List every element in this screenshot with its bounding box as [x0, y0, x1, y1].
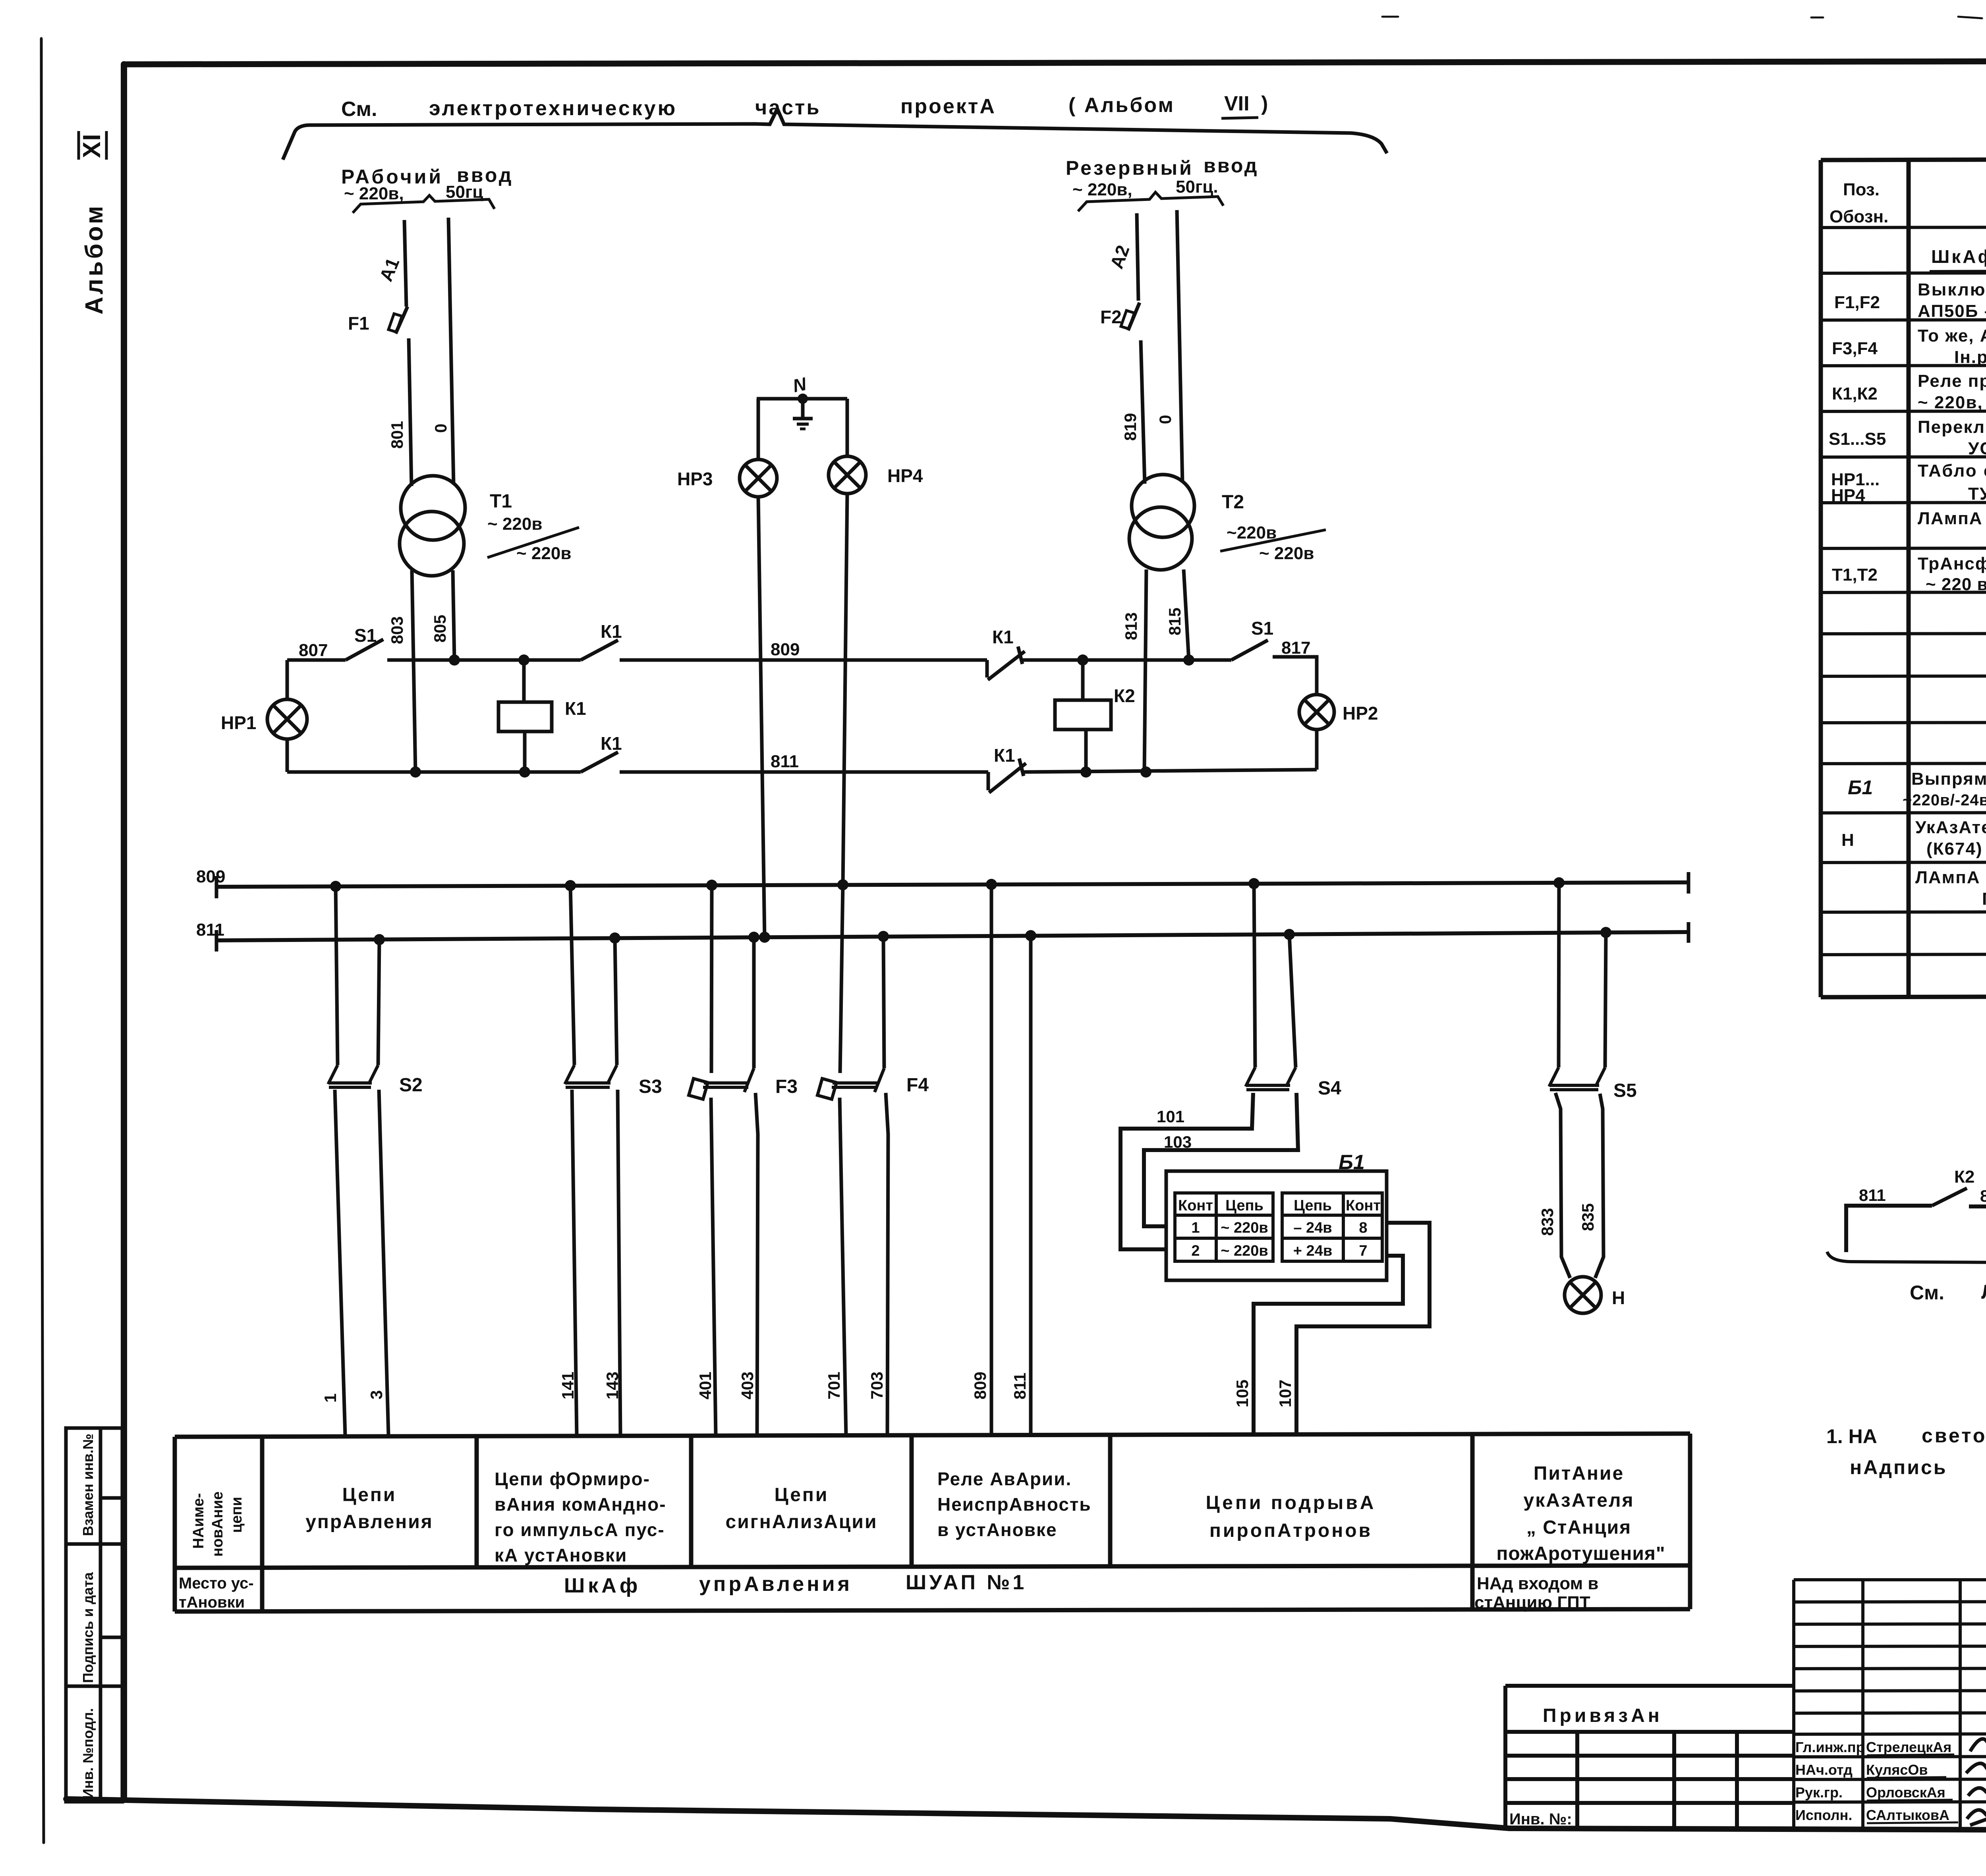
svg-text:ПривязАн: ПривязАн — [1543, 1705, 1663, 1726]
svg-text:~ 220в: ~ 220в — [487, 514, 542, 534]
svg-text:813: 813 — [1122, 612, 1140, 640]
svg-text:50гц.: 50гц. — [1176, 177, 1218, 197]
svg-text:СтрелецкАя: СтрелецкАя — [1866, 1739, 1951, 1755]
spec row F1F2 — [1834, 280, 1986, 322]
svg-text:+ 24в: + 24в — [1293, 1243, 1332, 1259]
wire 0 reserve — [1177, 210, 1182, 483]
wire 801 upper — [404, 220, 406, 307]
contact K1 NO in wire 809 — [581, 640, 618, 660]
svg-text:УСО. 360 ∙ 049ТУ: УСО. 360 ∙ 049ТУ — [1968, 439, 1986, 458]
wire 809 segment a — [387, 658, 581, 662]
svg-text:К1: К1 — [992, 627, 1014, 647]
svg-text:Лист: Лист — [1981, 1281, 1986, 1303]
svg-text:Н: Н — [1841, 830, 1854, 850]
left margin stamp boxes — [66, 1428, 122, 1802]
svg-text:811: 811 — [1010, 1372, 1029, 1399]
svg-text:815: 815 — [1165, 608, 1184, 635]
wire HP3 top — [757, 399, 760, 459]
svg-text:1: 1 — [321, 1393, 340, 1403]
svg-text:КулясОв: КулясОв — [1866, 1762, 1928, 1778]
wire 0 working — [448, 218, 454, 484]
relay coil K1 — [498, 702, 552, 731]
svg-text:Инв. №:: Инв. №: — [1509, 1810, 1572, 1828]
svg-text:801: 801 — [388, 421, 406, 449]
svg-text:УкАзАтель светАвой СУП: УкАзАтель светАвой СУП-М — [1915, 818, 1986, 837]
big brace under top note — [283, 109, 1387, 160]
small brace reserve input — [1078, 192, 1223, 211]
svg-text:электротехническую: электротехническую — [429, 97, 677, 120]
wire 703 down — [886, 1093, 888, 1435]
label reserve input — [1066, 154, 1258, 179]
svg-text:103: 103 — [1164, 1133, 1192, 1151]
svg-text:0: 0 — [1156, 415, 1175, 424]
svg-text:НАч.отд: НАч.отд — [1795, 1762, 1853, 1778]
rectifier block B1 outer — [1166, 1171, 1387, 1280]
spec row B1 — [1848, 768, 1986, 811]
column texts — [305, 1484, 433, 1532]
wire S3 right from bus 811 — [615, 938, 617, 1065]
wire 837 — [1969, 1204, 1986, 1208]
wire pin 8 to 107 — [1296, 1223, 1430, 1435]
brace AP-6 — [1827, 1250, 1986, 1275]
wire 143 down — [618, 1090, 620, 1435]
svg-text:Реле промежуточное РПУ: Реле промежуточное РПУ-1 -362, — [1918, 371, 1986, 391]
svg-text:пиропАтронов: пиропАтронов — [1209, 1520, 1372, 1541]
svg-text:S1: S1 — [1251, 618, 1273, 639]
svg-text:Взамен инв.№: Взамен инв.№ — [80, 1434, 96, 1536]
svg-text:кА устАновки: кА устАновки — [495, 1545, 627, 1565]
lamp HP1 — [267, 699, 307, 739]
sheet left edge line — [41, 39, 44, 1843]
svg-text:~ 220 в / ~ 220в ГОСТ 1.: ~ 220 в / ~ 220в ГОСТ 1. 6710 -76 — [1926, 575, 1986, 594]
svg-text:укАзАтеля: укАзАтеля — [1524, 1490, 1634, 1511]
wire K2 coil top — [1081, 660, 1085, 700]
wire pin 7 to 105 — [1254, 1256, 1403, 1435]
junction dots bus 811 — [374, 927, 1611, 945]
contact K1 NC in wire 811 — [988, 759, 1026, 793]
svg-text:„ СтАнция: „ СтАнция — [1526, 1517, 1631, 1538]
svg-text:ввод: ввод — [1204, 154, 1258, 177]
svg-text:НАиме-: НАиме- — [190, 1493, 207, 1549]
wire 809 segment b — [620, 658, 987, 662]
wire F4 right from bus 811 — [883, 936, 884, 1068]
transformer T1 — [401, 476, 465, 540]
svg-text:НР4: НР4 — [887, 465, 923, 486]
wire HP3 down to bus 811 — [758, 497, 765, 938]
wire S3 left from bus 809 — [570, 886, 574, 1065]
wire 805 — [453, 570, 454, 660]
svg-text:К1,К2: К1,К2 — [1832, 384, 1878, 403]
svg-text:703: 703 — [867, 1372, 886, 1399]
header cell rotated — [190, 1492, 245, 1557]
svg-text:Подпись и дата: Подпись и дата — [80, 1572, 96, 1683]
switch S5 — [1549, 1067, 1605, 1090]
svg-text:Обозн.: Обозн. — [1830, 207, 1888, 226]
svg-text:ОрловскАя: ОрловскАя — [1866, 1784, 1945, 1801]
spec header texts — [1830, 180, 1986, 226]
wire 817 — [1273, 657, 1317, 695]
svg-text:~ 220в: ~ 220в — [1221, 1220, 1268, 1236]
svg-text:вАния комАндно-: вАния комАндно- — [495, 1494, 667, 1515]
svg-text:817: 817 — [1281, 638, 1310, 658]
svg-text:XI: XI — [78, 133, 106, 158]
wire HP1 bottom stub — [286, 739, 289, 772]
bus 811 — [216, 932, 1688, 940]
svg-text:ВыпрямительныЙ блок В: ВыпрямительныЙ блок ВБ –24/6-3, — [1911, 768, 1986, 789]
svg-text:Т2: Т2 — [1222, 492, 1244, 513]
svg-text:стАнцию ГПТ: стАнцию ГПТ — [1474, 1593, 1590, 1612]
wire 807 segment — [287, 658, 346, 662]
signatures squiggles — [1966, 1733, 1986, 1825]
wire F3 right from bus 811 — [752, 937, 756, 1068]
row 2 texts — [564, 1571, 1027, 1597]
breaker F1 — [396, 307, 408, 334]
svg-text:VII: VII — [1224, 92, 1250, 115]
switch S3 — [565, 1065, 617, 1087]
svg-text:ЛАмпА Б220 –25, ~ 220в,: ЛАмпА Б220 –25, ~ 220в, 25вт , — [1915, 868, 1986, 887]
svg-text:нАдпись: нАдпись — [1850, 1456, 1947, 1478]
svg-text:819: 819 — [1121, 413, 1140, 441]
svg-text:811: 811 — [196, 920, 224, 940]
wire 701 down — [840, 1098, 846, 1435]
wire 811 drop to table — [1029, 936, 1033, 1435]
svg-text:К2: К2 — [1954, 1167, 1974, 1187]
relay coil K2 — [1055, 700, 1111, 730]
svg-text:F4: F4 — [906, 1075, 929, 1096]
contact K2 frag — [1932, 1188, 1967, 1206]
svg-text:S1...S5: S1...S5 — [1829, 429, 1886, 449]
album XI vertical label — [78, 133, 108, 315]
svg-text:Цепь: Цепь — [1294, 1197, 1332, 1214]
wire S5 left from bus 809 — [1559, 883, 1559, 1067]
breaker F2 — [1128, 303, 1140, 330]
wire HP1 top stub — [286, 660, 289, 699]
spec row H — [1841, 818, 1986, 860]
svg-text:( Альбом: ( Альбом — [1068, 94, 1175, 117]
wire N — [757, 397, 847, 401]
svg-text:~ 220в,: ~ 220в, — [1072, 180, 1132, 199]
svg-text:403: 403 — [738, 1372, 757, 1399]
svg-text:Цепи: Цепи — [775, 1484, 829, 1505]
svg-text:Т1: Т1 — [490, 491, 512, 512]
svg-text:~220в: ~220в — [1227, 523, 1277, 542]
wire 403 down — [755, 1093, 758, 1435]
wire K1 coil bottom — [523, 731, 527, 772]
junction dots bus 809 — [330, 877, 1565, 892]
scan noise top — [1382, 17, 1986, 18]
wire S2 left from bus 809 — [336, 886, 338, 1065]
wire S5 right from bus 811 — [1605, 932, 1606, 1067]
privyazan box — [1505, 1686, 1794, 1830]
svg-text:Переключатель „Тумблер" Т: Переключатель „Тумблер" ТВ1-2, — [1918, 417, 1986, 437]
lamp HP4 — [829, 456, 866, 494]
wire 813 — [1144, 569, 1146, 772]
svg-text:F1,F2: F1,F2 — [1834, 293, 1880, 312]
label working input — [341, 164, 513, 188]
breaker F3 — [689, 1068, 754, 1099]
svg-text:К2: К2 — [1114, 685, 1135, 706]
svg-text:сигнАлизАции: сигнАлизАции — [726, 1511, 878, 1532]
wire 811 segment c — [1023, 770, 1317, 772]
svg-text:То же, АП50Б-2М , ~: То же, АП50Б-2М , ~ 220в — [1918, 326, 1986, 345]
svg-text:7: 7 — [1359, 1243, 1367, 1259]
svg-text:~ 220в,: ~ 220в, — [344, 184, 404, 203]
wire 819 upper — [1137, 213, 1138, 301]
svg-text:САлтыковА: САлтыковА — [1866, 1807, 1949, 1823]
svg-text:цепи: цепи — [228, 1497, 245, 1533]
switch S2 — [328, 1065, 378, 1087]
svg-text:S2: S2 — [399, 1075, 423, 1096]
svg-text:809: 809 — [196, 867, 225, 886]
caption AP-6 — [1910, 1280, 1986, 1304]
svg-text:S4: S4 — [1318, 1078, 1341, 1099]
svg-text:АП50Б –2МН, ~ 220в , I: АП50Б –2МН, ~ 220в , Iн.р = 6.4А — [1918, 301, 1986, 321]
svg-text:ТрАнсформАтор ОСМ- 1.0У3,: ТрАнсформАтор ОСМ- 1.0У3, исп. 2 — [1918, 554, 1986, 573]
svg-text:809: 809 — [971, 1372, 989, 1399]
svg-text:Альбом: Альбом — [81, 204, 108, 315]
wire 835 — [1595, 1094, 1603, 1278]
svg-text:~ 220в: ~ 220в — [1259, 544, 1314, 563]
transformer T2 — [1132, 475, 1194, 537]
svg-text:2: 2 — [1191, 1243, 1200, 1259]
junction dots wire 809 — [449, 654, 1194, 666]
svg-text:К1: К1 — [565, 698, 586, 719]
svg-text:(К674) , ТУ 36 –101 –70: (К674) , ТУ 36 –101 –70 — [1926, 839, 1986, 859]
svg-text:F2: F2 — [1100, 307, 1122, 327]
svg-text:См.: См. — [1910, 1282, 1944, 1304]
wire F3 left from bus 809 — [711, 885, 712, 1073]
svg-text:Б1: Б1 — [1339, 1151, 1365, 1174]
svg-text:Исполн.: Исполн. — [1795, 1807, 1852, 1823]
wire HP2 bottom stub — [1315, 730, 1319, 770]
wire S4 left from bus 809 — [1254, 884, 1255, 1067]
svg-text:3: 3 — [367, 1390, 386, 1399]
svg-text:НР3: НР3 — [677, 469, 713, 489]
B1 table texts — [1178, 1197, 1381, 1259]
svg-text:новАние: новАние — [209, 1492, 226, 1557]
lamp HP3 — [740, 459, 777, 497]
svg-text:1. НА: 1. НА — [1826, 1425, 1877, 1448]
wire 811 segment a — [287, 770, 581, 774]
spec row K1K2 — [1832, 371, 1986, 413]
svg-text:S5: S5 — [1613, 1080, 1637, 1101]
svg-text:ТАбло световое ТСМ, ~: ТАбло световое ТСМ, ~ 220в, — [1918, 461, 1986, 481]
svg-text:107: 107 — [1276, 1380, 1294, 1407]
svg-text:Место ус-: Место ус- — [179, 1575, 254, 1592]
svg-text:го импульсА пус-: го импульсА пус- — [495, 1519, 665, 1540]
svg-text:143: 143 — [603, 1372, 622, 1399]
svg-text:НР4: НР4 — [1831, 486, 1865, 505]
bus 809 — [216, 882, 1688, 887]
svg-text:К1: К1 — [601, 733, 622, 754]
svg-text:8: 8 — [1359, 1220, 1367, 1236]
svg-text:ШкАф упрАвления ШУАП №1: ШкАф упрАвления ШУАП №1 — [1931, 246, 1986, 267]
wire K1 coil top — [522, 660, 526, 702]
wire 141 down — [572, 1090, 577, 1435]
svg-text:): ) — [1261, 92, 1268, 115]
signature grid — [1794, 1580, 1986, 1831]
svg-text:Инв. №подл.: Инв. №подл. — [80, 1708, 96, 1799]
wire 103 — [1144, 1093, 1298, 1226]
svg-text:Конт: Конт — [1346, 1197, 1381, 1214]
svg-text:~ 220в, 6з+2р, ТУ16.523. 0: ~ 220в, 6з+2р, ТУ16.523. 020 -74 — [1918, 393, 1986, 412]
svg-text:Цепь: Цепь — [1225, 1197, 1263, 1214]
svg-text:ГОСТ 2239–70: ГОСТ 2239–70 — [1982, 889, 1986, 909]
svg-text:Цепи фОрмиро-: Цепи фОрмиро- — [495, 1469, 650, 1489]
switch S1 contact right — [1231, 640, 1268, 660]
wire 401 down — [711, 1098, 716, 1435]
wire 101 — [1121, 1093, 1253, 1249]
svg-text:803: 803 — [388, 616, 406, 644]
svg-text:Гл.инж.пр: Гл.инж.пр — [1795, 1739, 1865, 1755]
svg-text:0: 0 — [431, 424, 450, 433]
svg-text:Резервный: Резервный — [1066, 157, 1194, 179]
svg-text:ШУАП №1: ШУАП №1 — [906, 1571, 1027, 1594]
svg-text:833: 833 — [1538, 1208, 1557, 1236]
svg-text:Н: Н — [1612, 1287, 1625, 1308]
svg-text:Поз.: Поз. — [1843, 180, 1880, 199]
svg-text:Iн.р. = 4А б/к 1П: Iн.р. = 4А б/к 1П — [1954, 347, 1986, 367]
wire 1 down — [335, 1090, 345, 1435]
svg-text:ТУ16. 535. 424 –70: ТУ16. 535. 424 –70 — [1968, 484, 1986, 504]
spec row F3F4 — [1832, 326, 1986, 368]
wire 811 fragment — [1846, 1206, 1932, 1252]
svg-text:См.: См. — [341, 98, 377, 121]
svg-text:пожАротушения": пожАротушения" — [1496, 1543, 1665, 1564]
svg-text:S1: S1 — [354, 625, 377, 646]
lamp HP2 — [1299, 695, 1334, 730]
svg-text:ЛАмпА Ц220 –10, ~ 220в,: ЛАмпА Ц220 –10, ~ 220в, 10вт, — [1918, 509, 1986, 528]
svg-text:807: 807 — [299, 641, 328, 660]
switch S1 contact left — [346, 639, 383, 660]
svg-text:упрАвления: упрАвления — [305, 1511, 433, 1532]
wire 803 — [412, 570, 415, 772]
svg-text:в устАновке: в устАновке — [937, 1519, 1057, 1540]
svg-text:светобом: светобом — [1922, 1424, 1986, 1447]
wire F4 left from bus 809 — [840, 885, 843, 1073]
contact K1 NC in wire 809 — [987, 647, 1025, 680]
svg-text:Цепи подрывА: Цепи подрывА — [1206, 1492, 1376, 1513]
svg-text:835: 835 — [1578, 1203, 1597, 1231]
svg-text:F3: F3 — [775, 1076, 798, 1097]
wire 811 segment b — [620, 770, 988, 774]
svg-text:часть: часть — [755, 96, 821, 119]
wire S2 right from bus 811 — [378, 940, 379, 1065]
svg-text:Цепи: Цепи — [342, 1484, 397, 1505]
wire 815 — [1184, 569, 1189, 660]
lamp H — [1565, 1277, 1601, 1313]
svg-text:1: 1 — [1191, 1220, 1200, 1236]
spec row T1T2 — [1832, 554, 1986, 594]
svg-text:К1: К1 — [994, 745, 1015, 766]
svg-text:F3,F4: F3,F4 — [1832, 339, 1878, 358]
top note: see electrotechnical part — [341, 92, 1268, 121]
wire K2 coil bottom — [1084, 730, 1088, 772]
svg-text:105: 105 — [1233, 1380, 1252, 1407]
svg-text:– 24в: – 24в — [1293, 1220, 1332, 1236]
note text — [1826, 1421, 1986, 1478]
spec row lamp C220 — [1918, 509, 1986, 551]
svg-text:805: 805 — [431, 615, 449, 643]
svg-text:Конт: Конт — [1178, 1197, 1213, 1214]
svg-text:НАд входом в: НАд входом в — [1477, 1574, 1598, 1593]
svg-text:809: 809 — [771, 640, 800, 659]
svg-text:~ 220в: ~ 220в — [1221, 1243, 1268, 1259]
svg-text:ПитАние: ПитАние — [1534, 1463, 1624, 1484]
svg-text:701: 701 — [825, 1372, 843, 1399]
svg-text:811: 811 — [771, 752, 799, 771]
spec row lamp B220 — [1915, 868, 1986, 910]
svg-text:НР1: НР1 — [221, 712, 256, 733]
wire HP4 down to bus 809 — [843, 494, 847, 886]
switch S4 — [1246, 1067, 1296, 1090]
svg-text:тАновки: тАновки — [179, 1594, 245, 1611]
svg-text:НеиспрАвность: НеиспрАвность — [937, 1494, 1092, 1515]
svg-text:Реле АвАрии.: Реле АвАрии. — [937, 1469, 1072, 1489]
wire 809 drop to table — [990, 884, 993, 1435]
wire 809 segment c — [1022, 658, 1231, 662]
small brace working input — [353, 195, 495, 213]
svg-text:101: 101 — [1157, 1107, 1184, 1126]
B1 pin table right — [1282, 1193, 1382, 1261]
ground symbol — [798, 394, 808, 404]
spec row S1S5 — [1829, 417, 1986, 459]
svg-text:Рук.гр.: Рук.гр. — [1795, 1784, 1843, 1801]
svg-text:ШкАф: ШкАф — [564, 1574, 641, 1597]
drawing frame border — [124, 60, 1986, 64]
contact K1 NO in wire 811 — [581, 752, 618, 772]
svg-text:Т1,Т2: Т1,Т2 — [1832, 565, 1878, 585]
svg-text:141: 141 — [558, 1372, 577, 1399]
svg-text:Выключатель АвтомАтический: Выключатель АвтомАтический — [1918, 280, 1986, 299]
svg-text:упрАвления: упрАвления — [699, 1573, 852, 1596]
wire 3 down — [379, 1090, 388, 1435]
svg-text:К1: К1 — [601, 621, 622, 642]
svg-text:F1: F1 — [348, 313, 369, 334]
svg-text:837: 837 — [1980, 1187, 1986, 1205]
svg-text:811: 811 — [1859, 1186, 1886, 1204]
wire HP4 top — [846, 399, 849, 456]
svg-text:~220в/-24в, ТУ45 –75, 2g0 ,: ~220в/-24в, ТУ45 –75, 2g0 , 321 .035ТУ — [1903, 791, 1986, 809]
breaker F4 — [817, 1068, 884, 1099]
B1 pin table left — [1175, 1193, 1273, 1261]
svg-text:401: 401 — [696, 1372, 715, 1399]
spec row HP1HP4 — [1831, 461, 1986, 505]
wire S4 right from bus 811 — [1289, 934, 1296, 1067]
svg-text:~ 220в: ~ 220в — [516, 544, 571, 563]
svg-text:Б1: Б1 — [1848, 776, 1873, 799]
svg-text:НР2: НР2 — [1343, 703, 1378, 724]
svg-text:S3: S3 — [639, 1076, 662, 1097]
svg-text:проектА: проектА — [900, 95, 996, 118]
junction dots wire 811 — [410, 766, 1151, 778]
wire 833 — [1555, 1093, 1570, 1278]
